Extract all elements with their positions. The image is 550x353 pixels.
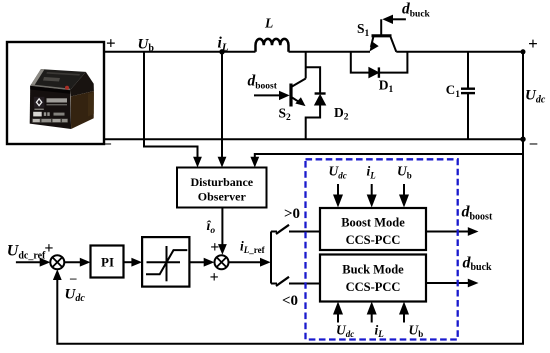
svg-text:CCS-PCC: CCS-PCC xyxy=(346,280,401,294)
svg-text:S2: S2 xyxy=(279,106,292,124)
svg-text:iL: iL xyxy=(218,35,229,54)
svg-text:C1: C1 xyxy=(446,82,460,100)
svg-text:Ub: Ub xyxy=(138,36,155,54)
svg-text:dbuck: dbuck xyxy=(402,1,431,20)
svg-text:Udc: Udc xyxy=(65,286,86,304)
svg-text:dboost: dboost xyxy=(248,73,278,92)
svg-text:+: + xyxy=(210,269,219,286)
svg-text:iL_ref: iL_ref xyxy=(240,239,266,256)
svg-text:Observer: Observer xyxy=(198,189,247,203)
svg-text:+: + xyxy=(106,34,116,53)
svg-text:Udc: Udc xyxy=(336,323,354,340)
svg-text:L: L xyxy=(264,16,273,31)
svg-text:dbuck: dbuck xyxy=(463,254,493,273)
svg-text:Buck Mode: Buck Mode xyxy=(342,263,404,277)
svg-text:+: + xyxy=(528,34,538,53)
svg-text:–: – xyxy=(102,136,111,152)
svg-text:Boost Mode: Boost Mode xyxy=(341,216,405,230)
svg-text:D2: D2 xyxy=(334,105,349,123)
svg-text:–: – xyxy=(69,270,77,285)
svg-text:dboost: dboost xyxy=(462,204,493,223)
svg-text:D1: D1 xyxy=(379,77,394,95)
svg-text:Udc_ref: Udc_ref xyxy=(7,243,46,262)
svg-text:Udc: Udc xyxy=(329,164,347,181)
svg-text:îo: îo xyxy=(207,219,216,236)
svg-text:<0: <0 xyxy=(282,293,298,309)
svg-text:Disturbance: Disturbance xyxy=(190,175,253,189)
svg-text:>0: >0 xyxy=(284,206,300,222)
svg-text:Ub: Ub xyxy=(409,323,424,340)
svg-text:iL: iL xyxy=(375,323,385,340)
svg-text:+: + xyxy=(210,239,219,256)
svg-text:+: + xyxy=(44,240,53,257)
svg-text:Ub: Ub xyxy=(397,164,412,181)
svg-text:iL: iL xyxy=(367,164,377,181)
svg-text:–: – xyxy=(529,136,538,152)
svg-text:CCS-PCC: CCS-PCC xyxy=(346,233,401,247)
svg-text:PI: PI xyxy=(101,255,114,270)
svg-text:S1: S1 xyxy=(357,21,370,39)
svg-text:Udc: Udc xyxy=(525,88,546,106)
